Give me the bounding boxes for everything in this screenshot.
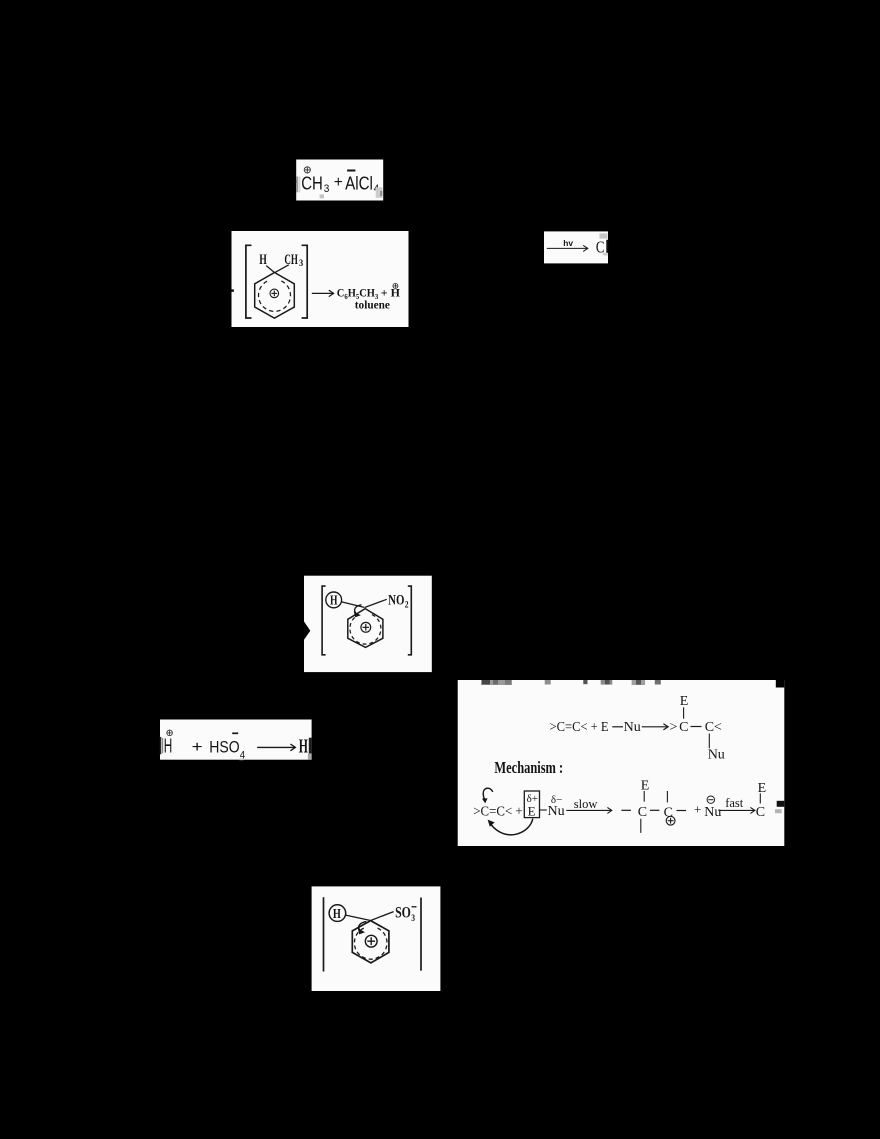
text HSO4 with bar over O [209, 733, 245, 761]
plus charge on proton [393, 283, 398, 288]
left bracket box4 [322, 586, 326, 655]
svg-text:E: E [528, 804, 536, 819]
reaction arrow box5 [257, 744, 295, 751]
dashed delocalisation arc box4 [350, 615, 381, 645]
benzene ring box4 [348, 609, 383, 648]
bond E down to C [683, 707, 685, 718]
bond C-C line1 [691, 726, 702, 728]
circled plus centre box2 [270, 289, 279, 298]
svg-text:3: 3 [299, 259, 303, 269]
bond H to ring [266, 266, 274, 273]
svg-text:NO: NO [388, 592, 404, 608]
curved arrow small (pi bond to E) [482, 788, 493, 803]
svg-text:3: 3 [411, 914, 415, 924]
white panel box4 [304, 576, 432, 672]
smudge top right box3 [600, 233, 608, 255]
bond box to Nu [540, 809, 547, 811]
svg-text:hv: hv [563, 238, 573, 248]
bond circled H to ring box7 [346, 915, 370, 920]
svg-text:C: C [679, 720, 688, 735]
text CH3 [301, 174, 329, 196]
svg-text:CH: CH [301, 174, 323, 194]
svg-text:Mechanism :: Mechanism : [494, 758, 563, 777]
svg-text:E: E [641, 779, 650, 794]
bond ring to NO2 [365, 599, 387, 607]
curved arrow into ring box4 [354, 605, 362, 617]
white panel box7 [312, 886, 441, 991]
cut smudge right edge box6 [775, 801, 784, 813]
svg-text:H: H [330, 593, 338, 608]
benzene ring box7 [352, 921, 389, 963]
reaction arrow box3 [547, 245, 588, 251]
dashed delocalisation arc box2 [259, 281, 291, 311]
right bracket box2 [302, 245, 308, 318]
bond E to C mechanism [643, 791, 645, 802]
svg-text:AlCl: AlCl [345, 174, 373, 194]
curved arrow into ring box7 [358, 922, 367, 935]
svg-text:>C=C< + E: >C=C< + E [550, 720, 609, 735]
svg-text:Nu: Nu [704, 805, 721, 820]
svg-text:H: H [299, 735, 308, 757]
cut glyph right edge box5 [240, 738, 312, 761]
left bar bracket box7 [323, 897, 325, 971]
bond CH3 to ring [275, 265, 289, 273]
label SO3- [395, 905, 416, 925]
svg-text:C: C [756, 805, 765, 820]
svg-text:Nu: Nu [708, 748, 725, 763]
svg-text:>C=C< +: >C=C< + [473, 805, 522, 820]
reaction arrow box2 [312, 290, 334, 296]
svg-text:+: + [192, 739, 203, 756]
bond E to product C [759, 793, 761, 803]
svg-text:slow: slow [574, 797, 598, 811]
svg-text:δ−: δ− [551, 794, 562, 806]
svg-text:fast: fast [725, 796, 744, 810]
slow arrow [566, 807, 612, 813]
right bar bracket box7 [420, 898, 422, 971]
left bracket box2 [246, 245, 252, 318]
cut arrow dash left edge box2 [232, 289, 234, 291]
cut arrowhead remnant left edge box4 [304, 622, 310, 640]
white panel box1 [296, 160, 383, 201]
smudge row top box6 [481, 680, 661, 685]
circled H box7 [329, 905, 346, 922]
svg-text:C: C [638, 805, 647, 820]
svg-text:H: H [164, 735, 173, 757]
svg-text:H: H [333, 907, 341, 922]
svg-text:toluene: toluene [355, 300, 390, 312]
svg-text:3: 3 [324, 183, 330, 195]
reaction arrow line1 [642, 724, 668, 730]
text AlCl4 with bar over A [345, 171, 379, 196]
carbocation skeleton -C-C- [621, 809, 686, 811]
bond circled H to ring [342, 602, 365, 608]
svg-text:E: E [680, 694, 689, 709]
cut glyph remnants left edge box5 [160, 737, 163, 754]
electrophile box [524, 791, 539, 818]
bond E-Nu [612, 726, 623, 728]
svg-text:>: > [670, 720, 678, 735]
svg-text:Nu: Nu [548, 804, 565, 819]
right bracket box4 [408, 586, 412, 655]
label CH3 on sp3 carbon [284, 252, 303, 269]
svg-text:C: C [705, 720, 714, 735]
black notch top-right corner box6 [776, 680, 785, 688]
white panel box2 [232, 231, 409, 327]
circled H box4 [326, 592, 342, 608]
cut glyph remnant left edge box1 [295, 177, 301, 193]
benzene ring box2 [255, 273, 295, 319]
white panel box6 [458, 680, 785, 846]
bond above second C [666, 791, 668, 802]
svg-text:SO: SO [395, 905, 411, 922]
svg-text:2: 2 [405, 600, 409, 610]
label NO2 [388, 592, 409, 609]
svg-text:C: C [664, 806, 673, 821]
svg-text:HSO: HSO [209, 738, 240, 756]
fast arrow [718, 807, 755, 813]
smudges bottom box1 [320, 187, 383, 198]
svg-text:<: < [714, 720, 722, 735]
bond C down to Nu [708, 734, 710, 749]
curved arrow big (Nu attack) [488, 819, 533, 835]
white panel box5 [160, 720, 312, 760]
plus-charge circle over CH3 [304, 167, 310, 173]
bond ring to SO3 [371, 912, 394, 921]
svg-text:+: + [334, 174, 343, 191]
bond below first C [640, 819, 642, 833]
circled plus centre box7 [365, 935, 377, 947]
svg-text:H: H [259, 252, 267, 268]
svg-text:E: E [758, 781, 767, 796]
svg-text:+: + [694, 801, 701, 816]
circled plus centre box4 [361, 622, 371, 632]
svg-text:Nu: Nu [624, 720, 641, 735]
circled minus above Nu [707, 796, 714, 803]
dashed delocalisation arc box7 [354, 928, 387, 959]
white panel box3 [544, 231, 608, 263]
circled plus below second C [666, 816, 675, 825]
cut product letters Cl [596, 238, 608, 257]
plus-charge circle over H [167, 730, 173, 736]
svg-text:C: C [596, 238, 605, 257]
